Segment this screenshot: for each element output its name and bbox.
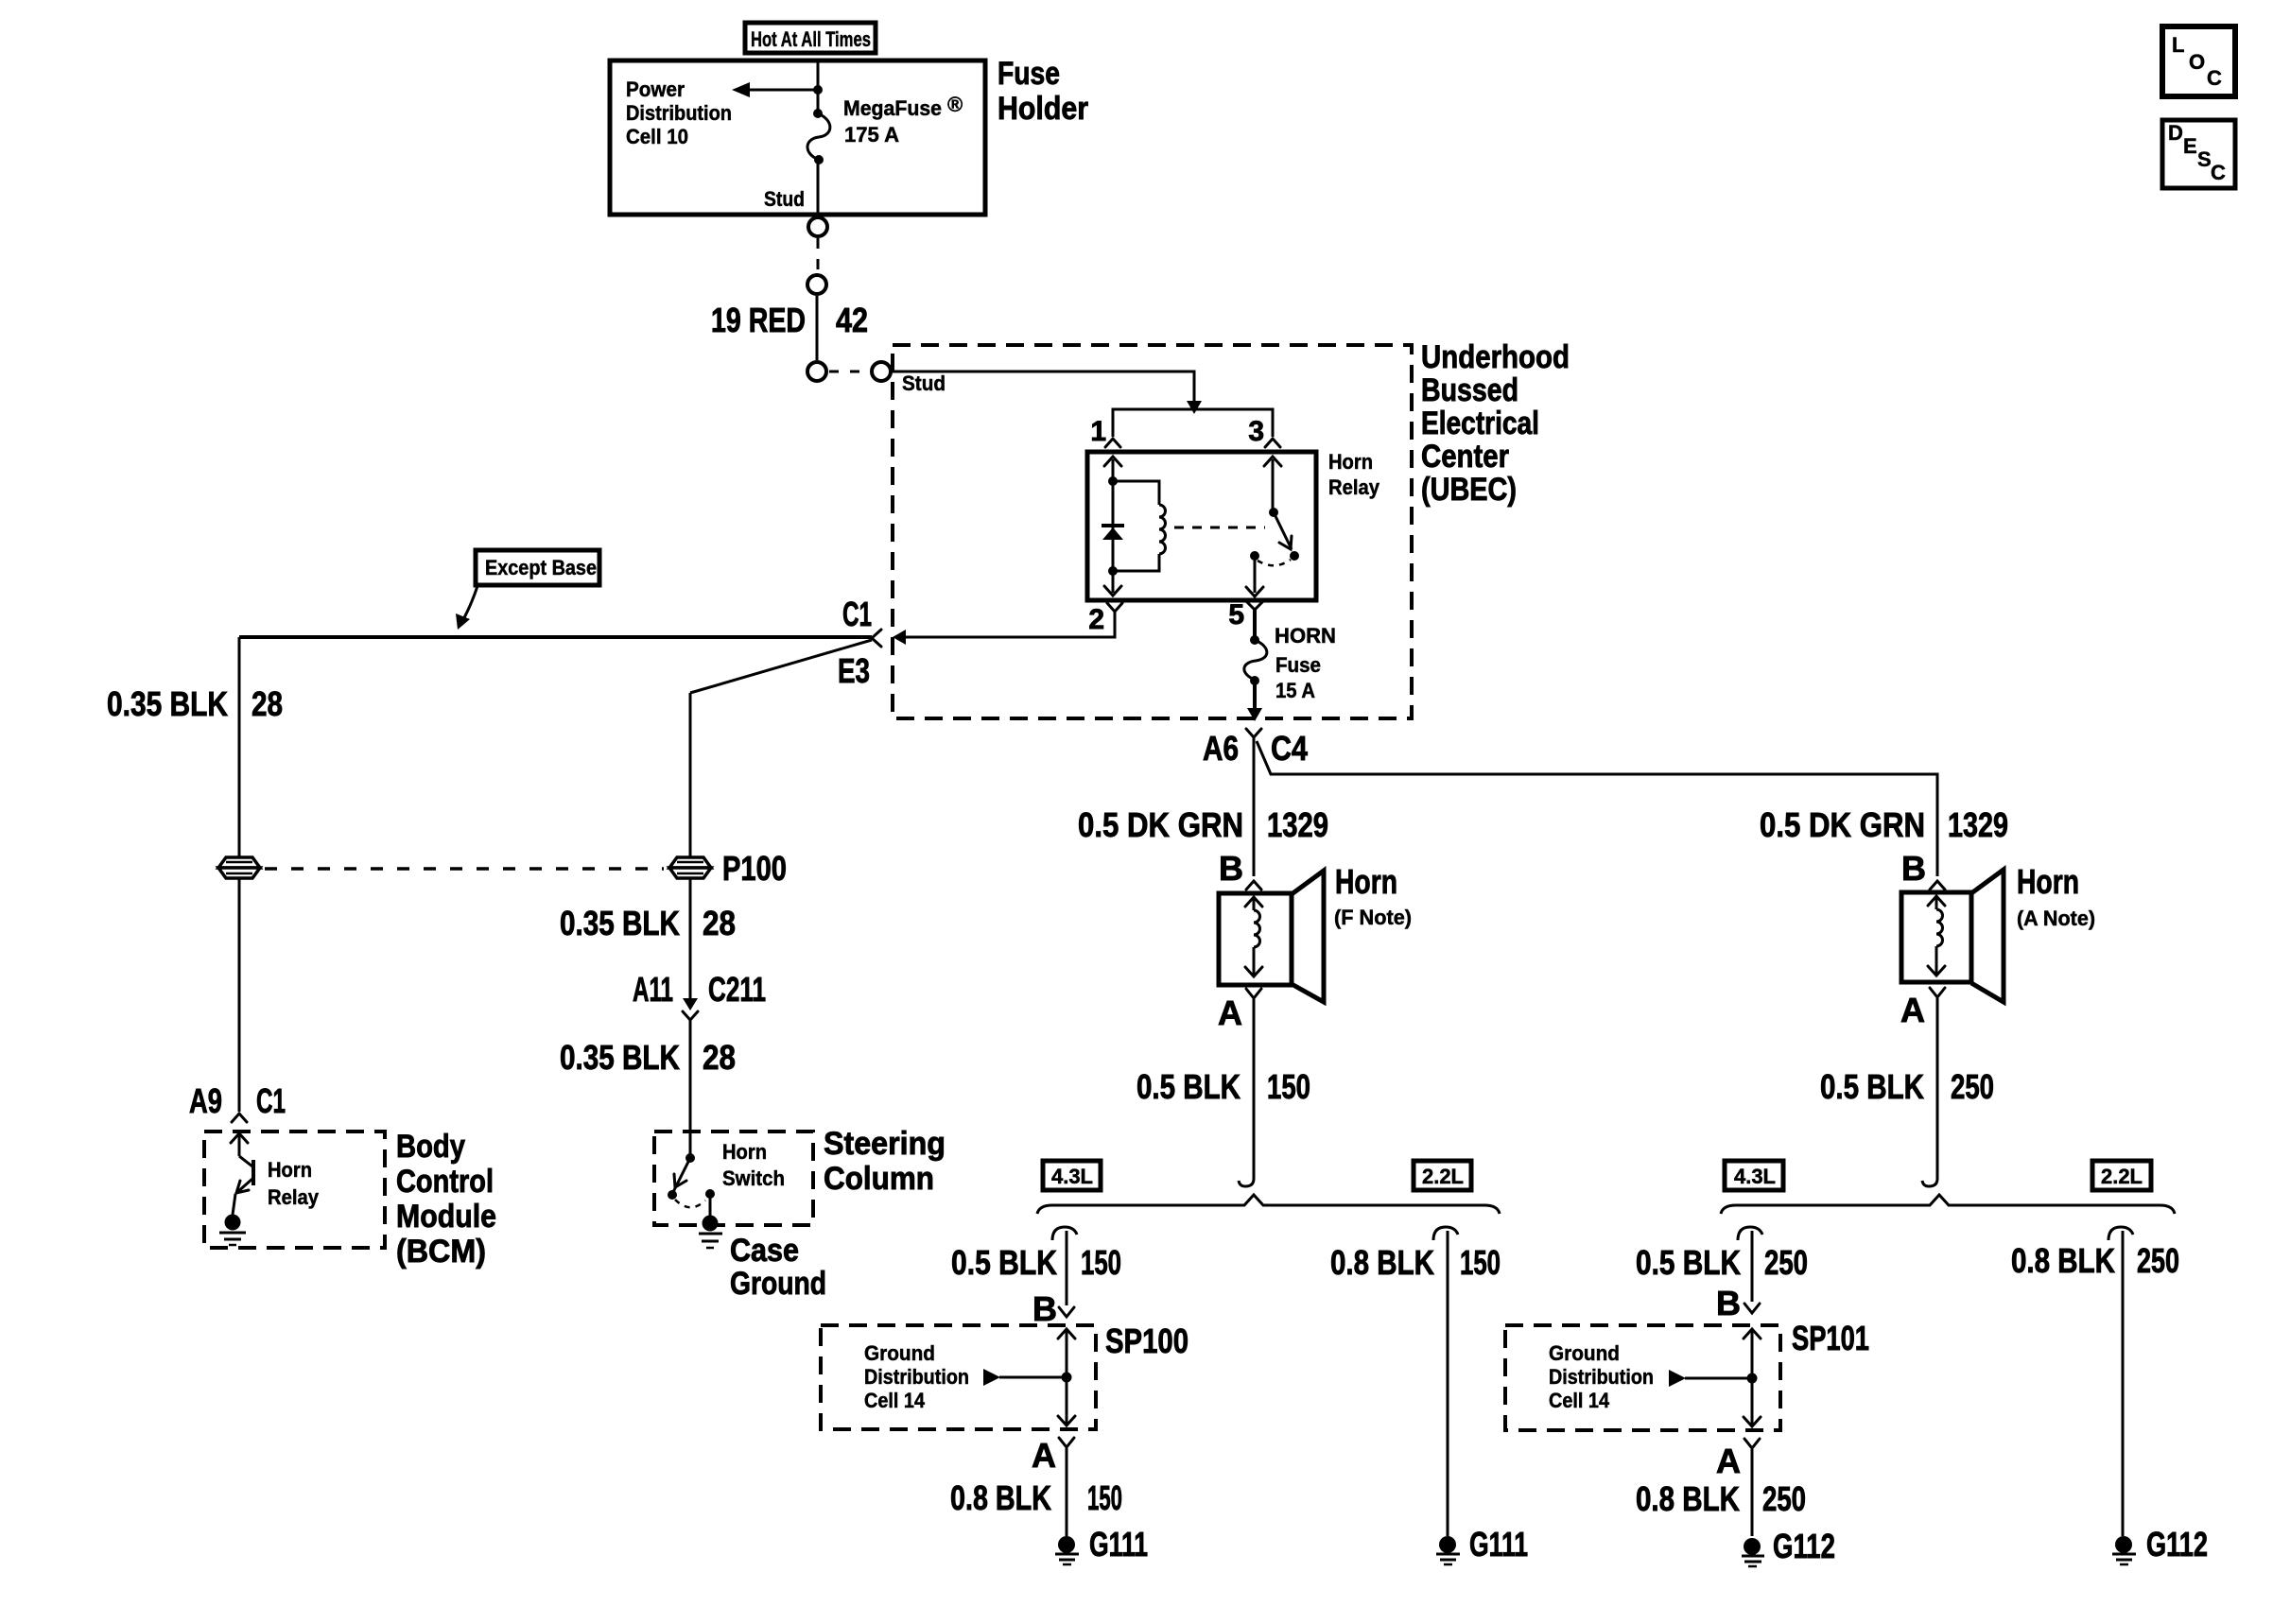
svg-text:Stud: Stud [764, 187, 805, 211]
pin A (SP100) [1032, 1436, 1074, 1475]
fuse holder box [610, 60, 985, 215]
svg-text:175 A: 175 A [844, 123, 899, 147]
wire: fuse holder internal feed [813, 60, 823, 113]
svg-text:A: A [1218, 993, 1242, 1032]
svg-text:(F Note): (F Note) [1334, 906, 1412, 929]
wire: arrow to Power Distribution Cell 10 [732, 82, 818, 97]
terminal ring: UBEC stud [872, 362, 891, 381]
option box: 4.3L (left) [1043, 1161, 1101, 1190]
svg-text:B: B [1032, 1289, 1057, 1328]
connector A11/C211 [633, 970, 766, 1020]
svg-text:Control: Control [396, 1164, 494, 1200]
wire 0.35 BLK 28 (steering branch lower) [689, 1020, 692, 1158]
ground: BCM internal [219, 1215, 246, 1246]
svg-text:1329: 1329 [1267, 805, 1328, 844]
horn H1 (F Note) [1219, 871, 1324, 1002]
svg-text:Electrical: Electrical [1421, 406, 1539, 441]
svg-text:250: 250 [1951, 1067, 1994, 1106]
svg-text:0.8 BLK: 0.8 BLK [2011, 1241, 2115, 1280]
svg-text:42: 42 [836, 301, 868, 339]
svg-text:A9: A9 [189, 1081, 222, 1120]
wire hook: 2.2L branch start (left) [1433, 1227, 1458, 1240]
svg-text:28: 28 [703, 1038, 736, 1077]
option box: 2.2L (right) [2092, 1161, 2151, 1190]
relay coil L1 [1113, 481, 1166, 571]
label: Ground Distribution Cell 14 (left) [864, 1341, 969, 1412]
value label: MegaFuse (R) 175 A [843, 93, 963, 147]
svg-text:Cell 14: Cell 14 [1549, 1389, 1610, 1412]
svg-text:P100: P100 [722, 849, 787, 888]
svg-text:Body: Body [396, 1129, 465, 1165]
svg-text:2.2L: 2.2L [1422, 1165, 1464, 1188]
svg-text:3: 3 [1248, 416, 1264, 447]
svg-text:0.5 DK GRN: 0.5 DK GRN [1760, 805, 1925, 844]
brace: F-horn ground split [1037, 1195, 1500, 1214]
svg-text:(A Note): (A Note) [2017, 907, 2095, 930]
node label: G111 (left) [1089, 1525, 1148, 1564]
splice SP101 box (Ground Distribution Cell 14) [1505, 1325, 1780, 1430]
node label: A9 C1 [189, 1081, 286, 1120]
svg-text:Switch: Switch [722, 1166, 785, 1190]
wire label: 0.35 BLK 28 (above C211) [560, 904, 736, 942]
switch SW1: Horn Switch [668, 1153, 715, 1218]
svg-text:C4: C4 [1271, 729, 1308, 768]
svg-text:(UBEC): (UBEC) [1421, 472, 1517, 508]
wire 0.8 BLK 150 (to G111) [1066, 1448, 1068, 1536]
pin label: Stud (UBEC) [902, 371, 946, 395]
svg-text:0.8 BLK: 0.8 BLK [1330, 1243, 1434, 1282]
value label: HORN Fuse 15 A [1275, 624, 1336, 702]
label: Horn (A Note) [2017, 862, 2095, 930]
wire: dashed link to UBEC stud [829, 371, 869, 373]
svg-text:Horn: Horn [268, 1158, 312, 1182]
node label: G112 (right) [2146, 1525, 2208, 1564]
svg-text:250: 250 [1764, 1243, 1808, 1282]
svg-text:150: 150 [1081, 1243, 1121, 1282]
wire 0.8 BLK 250 (2.2L right) [2122, 1231, 2125, 1536]
svg-text:B: B [1901, 849, 1926, 888]
wire label: 0.8 BLK 250 (2.2L right) [2011, 1241, 2179, 1280]
splice SP100 internals [983, 1329, 1075, 1425]
pin B (SP101) [1716, 1284, 1760, 1322]
svg-text:MegaFuse: MegaFuse [843, 96, 942, 120]
svg-text:B: B [1716, 1284, 1741, 1322]
splice SP101 internals [1669, 1329, 1761, 1426]
svg-text:S: S [2197, 147, 2212, 171]
wire: stud to relay bus [892, 371, 1202, 414]
svg-text:Horn: Horn [1328, 450, 1373, 474]
ground: case ground [699, 1216, 722, 1249]
pin A (F horn) [1218, 989, 1261, 1032]
svg-text:E3: E3 [838, 651, 870, 690]
wire label: 0.8 BLK 150 (2.2L) [1330, 1243, 1501, 1282]
ground G111 (2.2L) [1436, 1536, 1460, 1564]
node label: E3 [838, 651, 870, 690]
svg-text:Stud: Stud [902, 371, 946, 395]
label: Horn (F Note) [1334, 862, 1412, 929]
svg-text:150: 150 [1087, 1478, 1122, 1517]
svg-text:L: L [2172, 33, 2184, 57]
svg-text:0.5 BLK: 0.5 BLK [1136, 1067, 1241, 1106]
wire 0.5 DK GRN 1329 branch to A horn [1257, 741, 1937, 876]
dashed actuation link [1174, 527, 1265, 529]
wire: E3 diagonal to steering column [690, 640, 872, 693]
steering column box [654, 1132, 813, 1225]
wire label: 0.8 BLK 150 [950, 1478, 1122, 1517]
svg-text:Horn: Horn [722, 1140, 767, 1164]
svg-text:1: 1 [1090, 416, 1106, 447]
svg-text:0.8 BLK: 0.8 BLK [950, 1478, 1051, 1517]
svg-text:2.2L: 2.2L [2101, 1165, 2143, 1188]
label: Body Control Module (BCM) [396, 1129, 496, 1270]
node label: G111 (2.2L) [1469, 1525, 1528, 1564]
BCM box (Body Control Module) [204, 1132, 385, 1248]
svg-text:15 A: 15 A [1275, 679, 1315, 702]
pin 5 [1228, 599, 1263, 631]
pin A (SP101) [1716, 1439, 1760, 1480]
svg-text:G112: G112 [1773, 1527, 1835, 1565]
connector A9/C1 at BCM [232, 1114, 247, 1122]
svg-text:4.3L: 4.3L [1051, 1165, 1093, 1188]
wire label: 0.5 BLK 250 (4.3L) [1636, 1243, 1808, 1282]
relay K1: Horn Relay box [1087, 452, 1316, 600]
svg-text:Relay: Relay [268, 1185, 320, 1209]
pin 2 [1088, 603, 1122, 635]
label: Ground Distribution Cell 14 (right) [1549, 1341, 1654, 1412]
label: Horn Relay (UBEC) [1328, 450, 1380, 499]
svg-text:C: C [2207, 66, 2222, 90]
svg-text:Holder: Holder [998, 91, 1088, 127]
wire 0.8 BLK 150 (2.2L) [1447, 1231, 1449, 1536]
svg-text:19 RED: 19 RED [711, 301, 806, 339]
relay switch contacts [1246, 457, 1299, 596]
fuse F1: MegaFuse 175 A [807, 109, 830, 164]
connector C1 (female) at UBEC [872, 630, 881, 647]
svg-text:A: A [1032, 1436, 1056, 1475]
svg-text:SP100: SP100 [1105, 1322, 1189, 1360]
wire label: 19 RED 42 [711, 301, 868, 339]
svg-text:0.5 BLK: 0.5 BLK [951, 1243, 1057, 1282]
node label: SP100 [1105, 1322, 1189, 1360]
svg-text:A: A [1716, 1442, 1741, 1480]
wire: trunk Except Base to C1 [239, 635, 872, 639]
svg-text:Distribution: Distribution [864, 1365, 969, 1389]
wire hook: 4.3L branch start (right) [1738, 1227, 1762, 1240]
svg-text:Column: Column [824, 1161, 934, 1197]
svg-text:HORN: HORN [1275, 624, 1336, 648]
svg-text:Fuse: Fuse [1275, 653, 1321, 677]
svg-text:28: 28 [252, 684, 283, 723]
svg-text:0.5 DK GRN: 0.5 DK GRN [1078, 805, 1243, 844]
svg-text:Bussed: Bussed [1421, 372, 1518, 408]
svg-text:C1: C1 [842, 595, 872, 633]
wire label: 0.35 BLK 28 [107, 684, 283, 723]
svg-text:C211: C211 [708, 970, 766, 1009]
svg-text:0.35 BLK: 0.35 BLK [560, 904, 680, 942]
ground G111 (left) [1055, 1536, 1079, 1564]
svg-text:Module: Module [396, 1199, 496, 1235]
wire label: 0.5 DK GRN 1329 (right) [1760, 805, 2008, 844]
svg-text:Distribution: Distribution [1549, 1365, 1654, 1389]
svg-text:E: E [2183, 134, 2197, 158]
option box: 2.2L (left) [1414, 1161, 1471, 1190]
wire 0.35 BLK 28 (steering branch upper) [689, 693, 692, 1002]
svg-text:250: 250 [2137, 1241, 2179, 1280]
pin 3 [1248, 416, 1280, 447]
DESC reference box [2162, 120, 2235, 188]
svg-text:C: C [2211, 161, 2226, 184]
svg-text:Ground: Ground [730, 1266, 826, 1302]
UBEC box (Underhood Bussed Electrical Center) [893, 345, 1412, 718]
wire label: 0.35 BLK 28 (below C211) [560, 1038, 736, 1077]
svg-text:150: 150 [1460, 1243, 1501, 1282]
svg-text:Cell 14: Cell 14 [864, 1389, 926, 1412]
svg-text:B: B [1219, 849, 1243, 888]
wire: dashed stud link [817, 238, 820, 273]
svg-text:Fuse: Fuse [998, 56, 1060, 92]
node label: P100 [722, 849, 787, 888]
svg-text:Steering: Steering [824, 1126, 946, 1162]
wire 0.5 BLK 150 [1239, 999, 1254, 1186]
wire 0.8 BLK 250 (to G112) [1751, 1449, 1754, 1536]
svg-text:Ground: Ground [864, 1341, 935, 1365]
svg-text:Cell 10: Cell 10 [626, 125, 688, 148]
svg-text:5: 5 [1228, 599, 1244, 631]
wire: dashed P100 link [265, 867, 664, 871]
svg-text:Ground: Ground [1549, 1341, 1620, 1365]
label box: Except Base [456, 550, 599, 630]
label: Horn Switch [722, 1140, 785, 1190]
wire: pin 2 to C1 [893, 612, 1115, 645]
wire hook: 2.2L branch start (right) [2108, 1227, 2133, 1240]
svg-text:Distribution: Distribution [626, 101, 732, 125]
splice SP100 box (Ground Distribution Cell 14) [821, 1325, 1096, 1429]
wire label: 0.5 BLK 150 [1136, 1067, 1310, 1106]
relay driver Q1 inside BCM (Horn Relay) [231, 1133, 253, 1215]
svg-text:A6: A6 [1203, 729, 1239, 768]
svg-text:Center: Center [1421, 439, 1509, 475]
svg-text:Relay: Relay [1328, 475, 1380, 499]
ground G112 (2.2L right) [2112, 1536, 2136, 1564]
svg-text:250: 250 [1762, 1479, 1806, 1518]
relay coil branch: left vertical with arrows [1104, 457, 1121, 596]
svg-text:0.35 BLK: 0.35 BLK [107, 684, 228, 723]
svg-text:1329: 1329 [1948, 805, 2008, 844]
svg-text:28: 28 [703, 904, 736, 942]
wire 19 RED 42 [816, 296, 819, 360]
svg-text:0.5 BLK: 0.5 BLK [1636, 1243, 1741, 1282]
svg-text:(BCM): (BCM) [396, 1234, 486, 1270]
svg-text:C1: C1 [256, 1081, 286, 1120]
wire 0.35 BLK 28 (BCM branch) [238, 637, 241, 1112]
horn H2 (A Note) [1901, 870, 2004, 1002]
svg-text:Case: Case [730, 1233, 799, 1269]
pin B (SP100) [1032, 1289, 1074, 1328]
wire 0.5 BLK 150 (4.3L) [1066, 1231, 1068, 1305]
wire label: 0.8 BLK 250 [1636, 1479, 1806, 1518]
wire 0.5 BLK 250 (4.3L) [1751, 1231, 1754, 1302]
ground G112 (left) [1742, 1538, 1764, 1566]
svg-text:Horn: Horn [2017, 862, 2079, 901]
svg-text:A: A [1900, 991, 1925, 1029]
label: Horn Relay (BCM) [268, 1158, 320, 1209]
svg-text:A11: A11 [633, 970, 673, 1009]
wire label: 0.5 BLK 150 (4.3L) [951, 1243, 1121, 1282]
svg-text:Horn: Horn [1335, 862, 1397, 901]
svg-text:Underhood: Underhood [1421, 339, 1570, 375]
wire: relay feed bus [1113, 409, 1273, 437]
connector P100 pass-through (left) [218, 857, 260, 878]
svg-text:Power: Power [626, 78, 685, 101]
label box: Hot At All Times [745, 23, 876, 53]
wire 0.5 BLK 250 [1922, 998, 1937, 1186]
node label: G112 (left) [1773, 1527, 1835, 1565]
diode D1 (relay clamp) [1102, 526, 1124, 540]
svg-text:4.3L: 4.3L [1734, 1165, 1776, 1188]
svg-text:Except Base: Except Base [485, 556, 597, 579]
svg-text:0.5 BLK: 0.5 BLK [1820, 1067, 1924, 1106]
wire hook: 4.3L branch start (left) [1052, 1227, 1077, 1240]
label: Case Ground [730, 1233, 826, 1302]
connector A6/C4 [1203, 729, 1308, 768]
terminal ring: stud top [808, 217, 827, 236]
svg-text:SP101: SP101 [1792, 1319, 1869, 1357]
node label: C1 [842, 595, 872, 633]
wire 0.5 DK GRN 1329 (F horn) [1253, 737, 1256, 876]
pin B (F horn) [1219, 849, 1261, 890]
wire label: 0.5 DK GRN 1329 (left) [1078, 805, 1328, 844]
label: Steering Column [824, 1126, 946, 1197]
svg-text:®: ® [947, 93, 963, 116]
node label: SP101 [1792, 1319, 1869, 1357]
LOC reference box [2162, 26, 2235, 96]
svg-text:G111: G111 [1089, 1525, 1148, 1564]
svg-text:D: D [2168, 121, 2183, 145]
pin 1 [1090, 416, 1120, 447]
svg-text:2: 2 [1088, 604, 1104, 635]
label: Underhood Bussed Electrical Center (UBEC) [1421, 339, 1570, 508]
svg-text:O: O [2189, 50, 2205, 74]
terminal ring: lower left [807, 362, 826, 381]
connector P100 pass-through (right) [669, 857, 711, 878]
pin label: Stud (fuse holder) [764, 187, 805, 211]
pin A (A horn) [1900, 988, 1945, 1029]
brace: A-horn ground split [1721, 1195, 2175, 1214]
pin B (A horn) [1901, 849, 1945, 890]
fuse F2: HORN Fuse 15 A [1244, 610, 1267, 721]
svg-text:0.35 BLK: 0.35 BLK [560, 1038, 680, 1077]
wire label: 0.5 BLK 250 [1820, 1067, 1994, 1106]
svg-text:Hot At All Times: Hot At All Times [751, 27, 871, 51]
option box: 4.3L (right) [1725, 1161, 1783, 1190]
label: Fuse Holder [998, 56, 1088, 127]
terminal ring: middle [807, 275, 826, 294]
svg-text:G111: G111 [1469, 1525, 1528, 1564]
wire: fuse to stud [817, 160, 820, 216]
svg-text:G112: G112 [2146, 1525, 2208, 1564]
svg-text:150: 150 [1267, 1067, 1310, 1106]
svg-text:0.8 BLK: 0.8 BLK [1636, 1479, 1740, 1518]
